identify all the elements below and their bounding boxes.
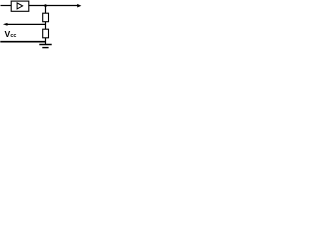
wire input to buffer [1,5,12,7]
arrowhead left tap Vcc [3,23,8,26]
resistor R1 [43,13,49,22]
svg-text:cc: cc [10,33,16,39]
wire Vcc rail [0,41,45,43]
wire output to right with arrow [29,5,78,7]
node junction on output wire [44,4,47,7]
buffer triangle symbol [17,3,23,9]
wire tap to left with arrow [7,23,47,25]
ground [39,44,51,46]
wire junction down to R1 [45,6,47,14]
op-amp U1 buffer box [11,1,29,11]
wire R2 to ground [45,38,47,44]
wire R1 to R2 [45,22,47,30]
arrowhead right output [77,4,81,8]
resistor R2 [43,29,49,38]
